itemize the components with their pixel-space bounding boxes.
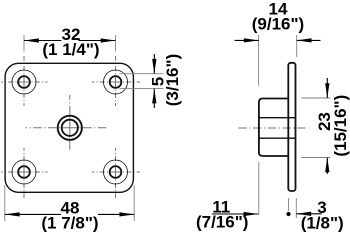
centerline center hole horizontal [26,127,107,129]
centerline BR hole horizontal [92,171,140,173]
dim 48 left arrow [5,212,20,216]
dim 32 line [5,40,328,214]
hole BR outer circle [104,160,128,184]
centerline BR hole vertical [115,148,117,198]
dim 3 extension line right [295,198,297,218]
svg-text:(7/16"): (7/16") [196,213,248,232]
dim 5 lower arrowhead [152,89,156,104]
dim 14 left arrowhead [244,38,259,42]
dim 3 arrowhead [296,212,311,216]
hole TL outer circle [12,70,36,94]
centerline BL hole horizontal [1,171,48,173]
side view plate outline [288,63,295,191]
center hole inner circle [62,120,78,136]
hole BR inner circle [110,166,122,178]
dim 5 upper arrow shaft [153,54,155,74]
centerline TR hole vertical [115,56,117,106]
center hole outer circle [58,116,82,140]
centerline center hole vertical [69,95,71,150]
dim 5 lower arrow shaft [153,89,155,108]
hole TL inner circle [18,76,30,88]
dim 3 extension line left [288,198,290,211]
side view boss outline [259,99,288,157]
centerline side view horizontal [238,127,308,129]
svg-text:(9/16"): (9/16") [252,14,304,33]
side view hole line upper [259,117,296,119]
svg-text:(15/16"): (15/16") [331,95,350,157]
dim 23 lower arrowhead [325,158,329,173]
dim 11 arrowhead [244,212,259,216]
dim 23 extension lines [302,97,331,99]
dim 14 left arrow shaft [235,39,259,41]
dim 14 right arrowhead [297,38,312,42]
dim 11 extension line at boss face [258,162,260,215]
svg-text:(3/16"): (3/16") [163,54,182,106]
dim 14 extension lines [258,35,260,86]
dim 48 right arrow [119,212,134,216]
svg-text:(1 7/8"): (1 7/8") [41,213,98,232]
dim 23 upper arrowhead [325,83,329,98]
dim 3 line [296,213,321,215]
dim 32 extension lines [5,35,331,221]
side view hole line lower [259,137,296,139]
hole BL outer circle [12,160,36,184]
centerlines (grey dash-dot) [1,56,309,198]
svg-text:(1/8"): (1/8") [301,213,344,232]
dim 23 upper arrow shaft [326,78,328,98]
dim 48 extension lines [4,185,6,221]
hole TR inner circle [110,76,122,88]
dim 23 lower arrow shaft [326,158,328,175]
centerline TL hole horizontal [1,81,48,83]
hole BL inner circle [18,166,30,178]
svg-text:(1 1/4"): (1 1/4") [42,40,99,59]
dim 5 upper arrowhead [152,59,156,74]
dim 48 line [5,213,134,215]
hole TR outer circle [104,70,128,94]
dim 11 line [212,213,258,215]
shared dot between dim 11 and dim 3 [286,212,290,216]
dim 32 right arrow [101,38,116,42]
centerline TR hole horizontal [92,81,140,83]
plate front view outline [5,63,133,192]
dim 14 right arrow shaft [297,39,321,41]
centerline BL hole vertical [23,148,25,198]
arrows [5,38,330,216]
dim 5 extension lines [120,73,164,75]
centerline TL hole vertical [23,56,25,106]
dim 32 left arrow [24,38,39,42]
